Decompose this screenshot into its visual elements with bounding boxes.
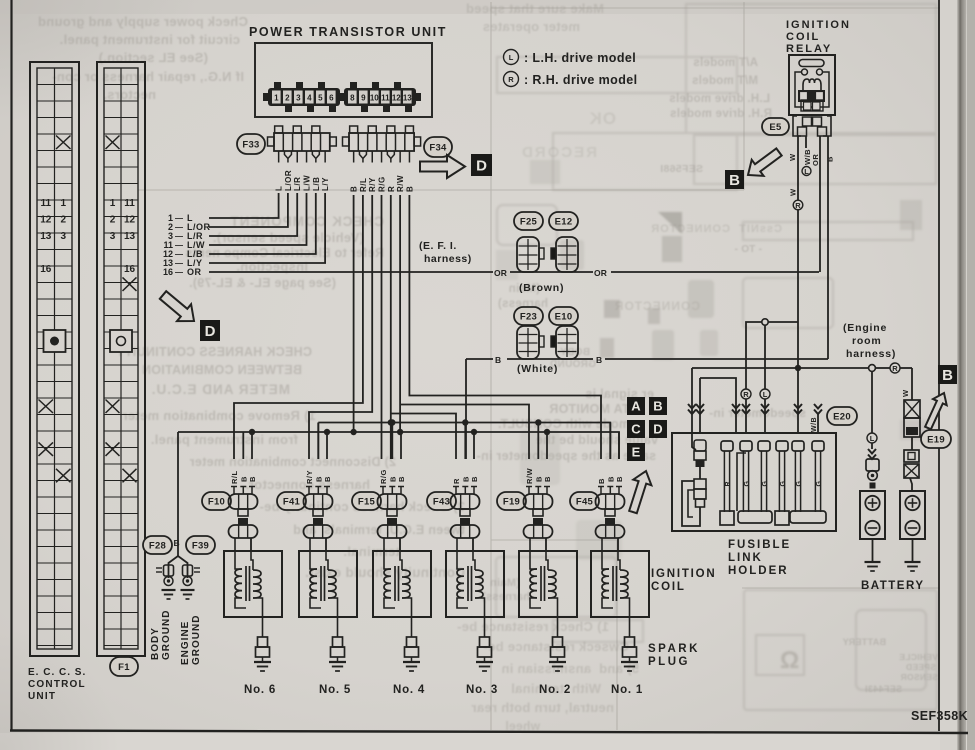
ground bus B (lower) (178, 432, 619, 459)
svg-text:B: B (597, 478, 606, 484)
svg-text:13: 13 (403, 94, 412, 103)
svg-text:BODY: BODY (150, 627, 161, 660)
svg-text:L.H. drive models: L.H. drive models (669, 93, 770, 105)
circle L battery wire (867, 433, 877, 443)
pin number list 1,2,3,11,12,13,16 with wire colors (163, 213, 211, 277)
svg-text:F45: F45 (576, 496, 594, 507)
circle L on fusible wire (760, 389, 770, 399)
coil harness connector No.1 (596, 494, 625, 516)
svg-text:R/Y: R/Y (305, 470, 314, 484)
label (Brown) (519, 282, 564, 294)
battery 1 (860, 491, 885, 539)
wire B from relay to White line (827, 148, 829, 359)
power transistor connector pins 8-13 (339, 82, 421, 112)
svg-text:6: 6 (329, 94, 334, 103)
svg-text:E19: E19 (927, 434, 945, 445)
svg-text:If N.G., repair harness or con: If N.G., repair harness or con- (52, 69, 244, 84)
coil connector pins No.4 (380, 487, 404, 495)
svg-text:E5: E5 (769, 122, 782, 133)
ground battery 2 (905, 539, 921, 571)
svg-text:HOLDER: HOLDER (728, 565, 789, 577)
label Engine room harness (843, 322, 896, 360)
svg-text:—: — (175, 232, 183, 241)
svg-text:GROUND: GROUND (161, 610, 172, 660)
svg-text:room: room (852, 335, 881, 347)
svg-text:SPEED: SPEED (906, 662, 936, 672)
svg-text:R: R (892, 364, 898, 373)
svg-text:B: B (826, 156, 835, 162)
svg-text:SPARK: SPARK (648, 643, 700, 655)
svg-text:16: 16 (40, 264, 52, 275)
relay: ignition coil relay box (789, 55, 835, 115)
svg-text:F43: F43 (433, 496, 450, 507)
circle R on E19 branch (890, 363, 900, 373)
svg-text:B: B (606, 476, 615, 482)
connector F23 body (517, 326, 544, 359)
svg-text:D: D (476, 157, 487, 174)
circle L on W/B (802, 167, 811, 176)
engine ground terminal (181, 565, 201, 599)
svg-text:Check power supply and ground: Check power supply and ground (38, 14, 248, 29)
connector F25 label (514, 212, 543, 230)
svg-text:5: 5 (318, 94, 323, 103)
section marker B (bus) (649, 397, 667, 415)
label No. 4 (393, 684, 425, 696)
svg-text:B: B (470, 476, 479, 482)
connector E19 label (921, 430, 951, 448)
svg-text:SEF568I: SEF568I (660, 163, 703, 175)
svg-text:16: 16 (163, 267, 173, 277)
junction dot on W bus (795, 365, 801, 371)
svg-text:B: B (534, 476, 543, 482)
svg-text:2: 2 (60, 214, 66, 225)
svg-text:OR: OR (594, 268, 607, 278)
battery wire chevron + connector (866, 443, 879, 489)
arrow to D (420, 155, 465, 178)
wire R/G to coil No.4 (381, 195, 383, 459)
svg-text:CssNIT CONNECTOR: CssNIT CONNECTOR (650, 223, 782, 235)
svg-text:4: 4 (307, 94, 312, 103)
svg-text:W: W (789, 188, 798, 196)
wire B to body/engine ground (177, 432, 179, 556)
ignition coil No.2 (519, 538, 577, 617)
svg-text:F28: F28 (149, 540, 166, 551)
svg-text:No. 4: No. 4 (393, 684, 425, 696)
label FUSIBLE LINK HOLDER (728, 539, 791, 577)
coil harness connector No.3 (451, 494, 480, 516)
svg-text:3: 3 (60, 231, 66, 242)
ignition coil No.5 (299, 538, 357, 617)
svg-text:IGNITION: IGNITION (651, 568, 717, 580)
svg-text:COIL: COIL (651, 581, 686, 593)
svg-text:12: 12 (124, 214, 136, 225)
connector E10 label (549, 307, 578, 325)
wire W down to holder (794, 368, 802, 433)
label No. 2 (539, 684, 571, 696)
svg-text:2: 2 (110, 214, 116, 225)
arrow to B (E19) (925, 393, 947, 429)
ground bus B (upper) (318, 423, 610, 460)
svg-text:1: 1 (110, 198, 116, 209)
svg-text:B: B (653, 399, 662, 414)
label POWER TRANSISTOR UNIT (249, 25, 447, 39)
svg-text:B: B (596, 355, 604, 365)
svg-text:G: G (744, 481, 751, 487)
coil connector pins No.5 (306, 487, 330, 495)
connector strip: E.C.C.S. control unit right connector (97, 62, 145, 656)
splice node to battery wire (open circle) (869, 365, 876, 372)
svg-text:IGNITION: IGNITION (786, 19, 851, 31)
svg-text:L: L (804, 167, 809, 176)
legend R.H. drive model (504, 72, 638, 88)
fusible link symbol (E19) (904, 400, 920, 437)
label B right (596, 355, 604, 365)
svg-text:13: 13 (124, 231, 136, 242)
svg-text:B: B (350, 186, 359, 192)
svg-text:R: R (743, 390, 749, 399)
svg-text:B: B (942, 367, 953, 384)
wire B (F34 pin7) to coil No.1 (409, 195, 601, 459)
wire L drive down to holder (761, 399, 769, 433)
section marker E (627, 443, 645, 461)
label No. 5 (319, 684, 351, 696)
svg-text:1) Remove combination meter: 1) Remove combination meter (122, 408, 316, 423)
svg-text:R/L: R/L (230, 470, 239, 484)
svg-text:M/T models: M/T models (692, 75, 758, 87)
svg-text:: L.H. drive model: : L.H. drive model (524, 51, 636, 65)
svg-text:F41: F41 (283, 496, 301, 507)
wire relay W down to bus (797, 322, 799, 368)
connector E5 body (793, 116, 831, 136)
inline connector chevrons left wires (688, 404, 740, 414)
coil harness connector No.5 (304, 494, 333, 516)
svg-text:(Vehicle speed sensor).: (Vehicle speed sensor). (213, 230, 364, 245)
svg-text:B: B (323, 476, 332, 482)
svg-text:circuit for instrument panel.: circuit for instrument panel. (59, 32, 240, 47)
spark plug No.2 (551, 617, 565, 662)
label (White) (517, 363, 558, 375)
svg-text:(Engine: (Engine (843, 322, 887, 334)
svg-text:B: B (405, 186, 414, 192)
coil B pin drops (243, 423, 619, 460)
svg-text:L: L (275, 186, 284, 191)
wire W bus to battery and E19 (692, 367, 912, 369)
svg-text:No. 6: No. 6 (244, 684, 276, 696)
svg-text:W/B: W/B (811, 417, 818, 432)
coil connector pins No.1 (598, 487, 622, 495)
connector F41 label (277, 492, 306, 510)
connector F10 label (202, 492, 231, 510)
svg-text:L/R: L/R (293, 177, 302, 191)
svg-text:3: 3 (110, 231, 116, 242)
label OR right (594, 268, 607, 278)
svg-text:D: D (205, 323, 216, 340)
svg-text:R: R (387, 186, 396, 192)
svg-text:1: 1 (274, 94, 279, 103)
svg-text:BATTERY: BATTERY (861, 580, 925, 592)
svg-text:R/Y: R/Y (368, 177, 377, 192)
splice node (open) (762, 319, 768, 325)
connector F34 comb (343, 126, 421, 163)
svg-text:R/G: R/G (379, 469, 388, 484)
label E.C.C.S. CONTROL UNIT (28, 667, 86, 702)
spark plug No.4 (405, 617, 419, 662)
svg-text:B: B (461, 476, 470, 482)
connector F1 (110, 657, 138, 676)
battery 2 (900, 491, 925, 539)
svg-text:OR: OR (187, 267, 202, 277)
svg-text:A/T models: A/T models (693, 57, 758, 69)
svg-text:G: G (780, 481, 787, 487)
connector F39 label (186, 536, 215, 554)
wire labels W / L W/B (788, 149, 812, 165)
svg-text:harness): harness) (846, 348, 896, 360)
svg-text:R/W: R/W (525, 468, 534, 485)
label No. 1 (611, 684, 643, 696)
svg-text:BODY: BODY (560, 347, 590, 358)
holder internal bracket (682, 479, 706, 526)
coil harness connector No.6 (229, 494, 258, 516)
svg-text:12: 12 (392, 94, 401, 103)
svg-text:METER AND E.C.U.: METER AND E.C.U. (151, 382, 290, 397)
svg-text:3: 3 (296, 94, 301, 103)
svg-text:L: L (870, 434, 875, 443)
section marker C (627, 420, 645, 438)
svg-text:5) and ansmissian in: 5) and ansmissian in (501, 661, 639, 676)
svg-text:—: — (175, 241, 183, 250)
svg-text:—: — (175, 214, 183, 223)
svg-text:(White): (White) (517, 363, 558, 375)
coil connector pins No.3 (453, 487, 477, 495)
svg-text:—: — (175, 268, 183, 277)
svg-text:harness): harness) (424, 253, 472, 265)
svg-text:OR: OR (811, 154, 820, 166)
section marker A (627, 397, 645, 415)
svg-text:E. C. C. S.: E. C. C. S. (28, 667, 86, 678)
svg-text:11: 11 (381, 94, 390, 103)
connector F25 body (517, 237, 544, 272)
connector E10 body (551, 326, 578, 359)
svg-text:F1: F1 (118, 662, 130, 673)
svg-text:OK: OK (589, 109, 617, 128)
svg-text:R: R (725, 481, 732, 486)
ground spark plug No.5 (329, 662, 346, 671)
svg-text:E: E (632, 445, 641, 460)
ignition coil No.6 (224, 538, 282, 617)
ground spark plug No.6 (254, 662, 271, 671)
svg-text:(Brown): (Brown) (519, 282, 564, 294)
section marker D (471, 154, 492, 176)
wire B engine room harness (White pair) (466, 358, 828, 360)
svg-text:L: L (509, 53, 514, 62)
svg-text:(See page EL- & EL-79).: (See page EL- & EL-79). (189, 276, 336, 290)
spark plug No.6 (256, 617, 270, 662)
svg-text:ENGINE: ENGINE (180, 621, 191, 665)
svg-text:L/OR: L/OR (284, 170, 293, 191)
svg-text:B: B (397, 476, 406, 482)
label BODY GROUND (150, 610, 172, 660)
svg-text:G: G (796, 481, 803, 487)
svg-text:L/W: L/W (303, 175, 312, 191)
svg-text:R: R (795, 201, 801, 210)
ground spark plug No.3 (476, 662, 493, 671)
wire OR from relay to OR line (820, 136, 828, 272)
spark plug No.3 (478, 617, 492, 662)
wires F33 to E.C.C.S. pin list (209, 193, 325, 263)
svg-text:Ω: Ω (780, 647, 799, 674)
svg-text:nectors.: nectors. (103, 87, 156, 102)
ignition coil connector No.2 (524, 518, 553, 551)
wire to E19 fusible link (901, 368, 912, 400)
label BATTERY (861, 580, 925, 592)
figure code SEF358K (911, 709, 968, 723)
svg-text:B: B (543, 476, 552, 482)
svg-text:ATA MONITOR: ATA MONITOR (549, 402, 638, 416)
fusible link bottom terminals (720, 511, 826, 525)
body ground terminal (156, 565, 176, 599)
svg-text:neutral, turn both rear: neutral, turn both rear (471, 700, 614, 715)
svg-text:UNIT: UNIT (28, 691, 56, 702)
svg-text:G: G (816, 481, 823, 487)
svg-text:—: — (175, 223, 183, 232)
wire color labels F34: B, R/L, R/Y, R/G, R, R/W, B (350, 175, 415, 192)
wire R/W to coil No.2 (397, 195, 529, 459)
section marker D (bus) (649, 420, 667, 438)
svg-text:RECORD: RECORD (520, 144, 597, 161)
label IGNITION COIL (651, 568, 717, 593)
svg-text:speedometer in-: speedometer in- (709, 406, 806, 420)
spark plug No.5 (331, 617, 345, 662)
svg-text:C: C (631, 422, 641, 437)
wire labels R B B (coil No.3) (452, 476, 479, 484)
ignition coil connector No.3 (451, 518, 480, 551)
wire labels R/L B B (coil No.6) (230, 470, 257, 484)
svg-text:D: D (653, 422, 662, 437)
holder entry connector (692, 433, 706, 479)
power transistor unit box (255, 43, 432, 117)
ground branch wires (169, 556, 188, 578)
svg-text:No. 1: No. 1 (611, 684, 643, 696)
svg-text:BATTERY: BATTERY (842, 637, 886, 647)
svg-text:F23: F23 (520, 311, 537, 322)
wire R to coil No.3 (388, 195, 456, 459)
svg-text:R: R (508, 75, 514, 84)
label SPARK PLUG (648, 643, 700, 668)
svg-text:G: G (762, 481, 769, 487)
ground spark plug No.2 (549, 662, 566, 671)
wire into fusible link holder (left pair) (692, 368, 736, 433)
svg-text:VEHICLE: VEHICLE (899, 652, 938, 662)
svg-text:B: B (495, 355, 503, 365)
svg-text:LINK: LINK (728, 552, 763, 564)
section marker B (relay) (725, 170, 744, 189)
svg-text:No. 5: No. 5 (319, 684, 351, 696)
svg-text:SEF358K: SEF358K (911, 709, 968, 723)
svg-text:F34: F34 (429, 142, 447, 153)
connector F45 label (570, 492, 599, 510)
svg-text:—: — (175, 250, 183, 259)
svg-text:L/Y: L/Y (321, 177, 330, 191)
svg-text:B: B (239, 476, 248, 482)
svg-text:F15: F15 (358, 496, 376, 507)
wire W branch to fusible link wires (746, 322, 798, 389)
svg-text:R: R (452, 478, 461, 484)
svg-text:11: 11 (40, 198, 51, 209)
ground battery 1 (865, 539, 881, 571)
label ENGINE GROUND (180, 615, 202, 665)
legend L.H. drive model (504, 50, 637, 66)
svg-text:FUSIBLE: FUSIBLE (728, 539, 791, 551)
wire color labels F33: L, L/OR, L/R, L/W, L/B, L/Y (275, 170, 331, 191)
ignition coil connector No.4 (378, 518, 407, 551)
wire R/L to coil No.6 (234, 195, 363, 459)
svg-text:: R.H. drive model: : R.H. drive model (524, 73, 637, 87)
svg-text:8: 8 (350, 94, 355, 103)
wire R/Y to coil No.5 (309, 195, 372, 459)
label OR left (494, 268, 507, 278)
svg-text:16: 16 (124, 264, 136, 275)
ground spark plug No.4 (403, 662, 420, 671)
svg-text:2: 2 (285, 94, 290, 103)
svg-text:E12: E12 (555, 216, 573, 227)
fusible links R,G,G,G,G,G (721, 441, 824, 512)
wire W from relay (798, 136, 806, 322)
svg-text:A: A (631, 399, 641, 414)
arrow to E (629, 471, 651, 513)
svg-text:R/G: R/G (378, 176, 387, 192)
svg-text:B: B (388, 476, 397, 482)
svg-text:11: 11 (124, 198, 135, 209)
coil connector pins No.6 (231, 487, 255, 495)
connector F34 label (424, 137, 452, 157)
svg-text:B: B (314, 476, 323, 482)
connector F23 label (514, 307, 543, 325)
svg-text:meter operates: meter operates (483, 19, 580, 34)
power transistor connector pins 1-6 (263, 82, 345, 112)
connector below E19 (904, 437, 919, 491)
svg-text:COIL: COIL (786, 31, 820, 43)
circle R with W label on relay W wire (789, 188, 803, 210)
svg-text:F33: F33 (242, 139, 259, 150)
svg-text:9: 9 (361, 94, 366, 103)
wire labels R/W B B (coil No.2) (525, 468, 552, 485)
svg-text:10: 10 (370, 94, 379, 103)
svg-text:13: 13 (40, 231, 52, 242)
label E.F.I. harness (419, 240, 472, 265)
holder internal jumper wire (737, 453, 746, 511)
ignition coil No.1 (591, 538, 649, 617)
svg-text:from instrument panel.: from instrument panel. (151, 432, 298, 447)
svg-text:B: B (248, 476, 257, 482)
svg-text:No. 3: No. 3 (466, 684, 498, 696)
connector E5 label (762, 118, 789, 135)
label No. 6 (244, 684, 276, 696)
svg-text:R/L: R/L (359, 178, 368, 192)
connector F33 comb (268, 126, 337, 163)
svg-text:E10: E10 (555, 311, 573, 322)
svg-text:L: L (763, 390, 768, 399)
section marker D (lower) (200, 320, 220, 341)
wire labels OR and B (811, 154, 835, 166)
connector F43 label (427, 492, 456, 510)
wire labels R/G B B (coil No.4) (379, 469, 406, 484)
wire B (F34 pin1) to ground bus (350, 195, 356, 435)
svg-text:CONTROL: CONTROL (28, 679, 86, 690)
connector strip: E.C.C.S. control unit left connector (30, 62, 79, 656)
ignition coil No.3 (446, 538, 504, 617)
connector F19 label (497, 492, 526, 510)
svg-text:W: W (901, 389, 910, 397)
